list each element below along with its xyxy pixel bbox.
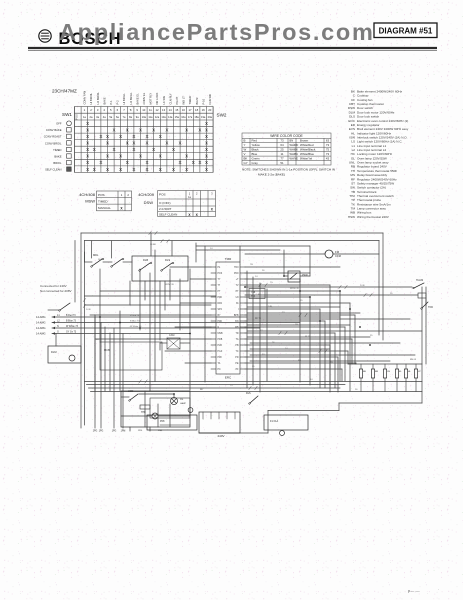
svg-text:CONV BAKE: CONV BAKE [46, 128, 62, 132]
svg-text:X: X [172, 167, 175, 172]
svg-text:75: 75 [326, 148, 330, 152]
svg-text:X: X [113, 147, 116, 152]
svg-text:X: X [139, 127, 142, 132]
svg-text:W 73: W 73 [305, 336, 311, 338]
svg-text:MCB: MCB [104, 348, 110, 352]
switch S7 (mid-left) [60, 303, 70, 310]
legend: component abbreviation list [348, 90, 409, 219]
svg-text:X: X [106, 154, 109, 159]
switch S8 (lamp switch) [130, 394, 138, 400]
logo Bosch emblem [39, 30, 51, 42]
svg-text:MSB: MSB [218, 333, 223, 335]
svg-text:TY: TY [218, 279, 221, 281]
svg-text:P08: P08 [218, 357, 223, 359]
svg-text:OFF: OFF [56, 122, 62, 126]
svg-text:16a: 16a [181, 115, 186, 119]
lamp circuit box [121, 391, 190, 427]
svg-text:BAKE: BAKE [102, 97, 106, 104]
inner box lamp module [150, 398, 190, 418]
svg-text:14 B: 14 B [360, 285, 365, 287]
svg-text:Connected for 240V: Connected for 240V [40, 284, 67, 288]
svg-text:1PG: 1PG [138, 430, 143, 432]
svg-text:BAKE: BAKE [54, 154, 61, 158]
svg-text:MOT RLY: MOT RLY [149, 93, 153, 105]
svg-text:PD: PD [235, 357, 239, 359]
svg-text:CONV ROAST: CONV ROAST [44, 135, 62, 139]
svg-text:77: 77 [280, 157, 284, 161]
svg-text:13: 13 [162, 108, 166, 112]
connector TB8/TB9 box [249, 289, 265, 299]
wire: cam feeds [160, 342, 167, 344]
svg-text:SELF CLEAN: SELF CLEAN [45, 167, 61, 171]
svg-text:White/Red: White/Red [300, 143, 314, 147]
wire number labels [86, 244, 417, 391]
svg-text:P0D: P0D [218, 297, 223, 299]
svg-text:X: X [139, 154, 142, 159]
svg-text:G: G [57, 331, 59, 334]
resistor EL2 [372, 364, 374, 369]
svg-text:LAMP: LAMP [180, 402, 186, 405]
svg-text:LK SW: LK SW [162, 96, 166, 105]
svg-text:FM: FM [335, 250, 340, 254]
svg-text:HI BROIL: HI BROIL [89, 92, 93, 104]
svg-text:BR: BR [375, 371, 378, 373]
svg-text:X: X [119, 134, 122, 139]
svg-text:4CH/408: 4CH/408 [79, 192, 96, 197]
diagram number box [374, 23, 437, 38]
svg-text:P-2: P-2 [116, 100, 120, 105]
svg-text:SELF CLEAN: SELF CLEAN [159, 213, 177, 217]
resistor EL5 [405, 364, 407, 369]
svg-text:HI-LIM: HI-LIM [416, 279, 423, 282]
junction dots [99, 275, 371, 395]
svg-text:SW2: SW2 [217, 113, 227, 118]
svg-text:X: X [86, 147, 89, 152]
motor FM (cooling fan) [325, 250, 333, 258]
svg-text:X: X [205, 134, 208, 139]
svg-text:BAKE EL: BAKE EL [135, 93, 139, 105]
svg-text:2.0-500T: 2.0-500T [159, 207, 171, 211]
lamp socket circle [188, 408, 193, 413]
svg-text:WH/BK: WH/BK [290, 148, 299, 152]
wire: neutral bus band [85, 381, 423, 383]
svg-text:DR LOCK: DR LOCK [155, 92, 159, 104]
svg-text:X: X [198, 160, 201, 165]
cam switch CAM [167, 338, 180, 349]
lamp OL2 [152, 413, 158, 419]
svg-text:DLM: DLM [51, 350, 56, 354]
wires: lamp cluster verticals [144, 391, 146, 427]
svg-text:14a: 14a [168, 115, 173, 119]
svg-text:BK 25: BK 25 [255, 318, 262, 320]
svg-text:X: X [86, 134, 89, 139]
svg-text:LO BROIL: LO BROIL [96, 92, 100, 105]
svg-text:X: X [86, 160, 89, 165]
svg-text:26 BK: 26 BK [150, 244, 156, 246]
switch S6 (right lower) [422, 302, 428, 308]
svg-text:25: 25 [280, 148, 284, 152]
svg-text:X: X [119, 167, 122, 172]
svg-text:PILOT: PILOT [175, 96, 179, 104]
svg-text:PLB: PLB [218, 345, 223, 347]
svg-text:X: X [86, 167, 89, 172]
svg-text:O (OFF): O (OFF) [159, 201, 171, 205]
svg-text:MSW: MSW [85, 199, 95, 204]
svg-text:ERC: ERC [225, 376, 232, 380]
svg-text:14 B: 14 B [86, 309, 91, 311]
svg-text:CONV BROIL: CONV BROIL [45, 141, 62, 145]
lamp OL1 [171, 398, 178, 405]
svg-text:TA: TA [236, 338, 239, 341]
svg-text:10a: 10a [142, 115, 147, 119]
svg-text:X: X [93, 147, 96, 152]
svg-text:TIMED: TIMED [98, 200, 108, 204]
svg-text:11a: 11a [148, 115, 153, 119]
svg-text:Red: Red [252, 139, 258, 143]
svg-text:1PG: 1PG [99, 431, 104, 433]
svg-text:43: 43 [326, 157, 330, 161]
svg-text:CE: CE [387, 371, 391, 373]
svg-text:X: X [205, 160, 208, 165]
wires: mid mesh horizontals [247, 306, 340, 308]
svg-text:POS: POS [159, 193, 166, 197]
svg-text:14: 14 [169, 108, 173, 112]
wires: ERC right fan-out [196, 245, 310, 247]
svg-text:SW1: SW1 [62, 112, 72, 117]
svg-text:W: W [244, 148, 247, 152]
svg-text:WH/YE: WH/YE [290, 157, 299, 161]
svg-text:1PG: 1PG [112, 431, 117, 433]
svg-text:19a: 19a [201, 115, 206, 119]
svg-text:X: X [152, 127, 155, 132]
svg-text:BN 63: BN 63 [410, 359, 417, 361]
svg-text:PB: PB [235, 345, 239, 347]
svg-text:X: X [93, 167, 96, 172]
svg-text:Black: Black [252, 148, 260, 152]
svg-text:B: B [244, 139, 246, 143]
svg-text:p— ––: p— –– [408, 588, 421, 593]
component TOD (small box right) [418, 293, 426, 298]
svg-text:X: X [126, 127, 129, 132]
svg-text:TV: TV [236, 285, 239, 287]
svg-text:PE: PE [235, 363, 239, 365]
svg-text:23CH/47MZ: 23CH/47MZ [52, 89, 77, 94]
svg-text:11: 11 [149, 108, 152, 112]
svg-text:X: X [146, 134, 149, 139]
svg-text:14 AWG: 14 AWG [36, 332, 46, 336]
wire: right border with step [421, 287, 423, 403]
svg-text:X: X [132, 141, 135, 146]
row labels [44, 122, 62, 172]
transformer T1 (left box) [48, 346, 81, 363]
svg-text:15a: 15a [175, 115, 180, 119]
svg-text:DLB: DLB [143, 258, 148, 262]
svg-text:14B: 14B [268, 306, 272, 308]
table: wire color code [242, 133, 331, 165]
svg-text:SP2: SP2 [218, 309, 223, 311]
svg-text:X: X [99, 134, 102, 139]
svg-text:Not connected for 208V: Not connected for 208V [40, 289, 72, 293]
svg-text:LSW: LSW [128, 390, 134, 393]
svg-text:X: X [159, 134, 162, 139]
svg-text:X: X [86, 154, 89, 159]
svg-text:X: X [205, 147, 208, 152]
svg-text:DLB: DLB [98, 259, 103, 261]
svg-text:PD0: PD0 [234, 273, 239, 275]
svg-text:Wiring thermostat 240V: Wiring thermostat 240V [357, 215, 390, 219]
svg-text:Yellow: Yellow [252, 143, 261, 147]
svg-text:51: 51 [280, 161, 284, 165]
svg-text:ZSW: ZSW [302, 274, 308, 277]
wire: left-half long runs [85, 295, 217, 297]
svg-text:AppliancePartsPros.com: AppliancePartsPros.com [59, 19, 375, 45]
svg-text:TC: TC [235, 351, 238, 353]
wire: z-box feeds [284, 275, 288, 277]
terminal block TB [147, 415, 197, 430]
svg-text:MDL: MDL [93, 253, 99, 257]
relay box K1 (top-left) [132, 256, 188, 281]
svg-text:.: . [438, 586, 439, 591]
svg-text:DLS: DLS [246, 392, 251, 395]
svg-text:X: X [113, 127, 116, 132]
svg-text:CF/M: CF/M [335, 255, 341, 258]
svg-text:64: 64 [280, 143, 284, 147]
svg-text:X: X [132, 167, 135, 172]
switch S1 (inside K1) [140, 263, 150, 270]
wire gauge ticks [83, 231, 372, 389]
svg-text:F1 F1A: F1 F1A [270, 420, 279, 423]
svg-text:PC: PC [218, 369, 222, 371]
svg-text:TA: TA [218, 362, 221, 365]
svg-text:X: X [159, 167, 162, 172]
svg-text:X: X [86, 141, 89, 146]
svg-text:X: X [205, 141, 208, 146]
svg-text:LO BR EL: LO BR EL [129, 92, 133, 105]
svg-text:B Red 73: B Red 73 [130, 315, 140, 317]
wire: fan feed [245, 253, 325, 255]
header rule [28, 47, 437, 49]
X marks in matrix [86, 121, 208, 172]
svg-text:X: X [179, 141, 182, 146]
svg-text:X: X [146, 160, 149, 165]
svg-text:BK: BK [244, 157, 248, 161]
svg-text:19: 19 [202, 108, 206, 112]
svg-text:73: 73 [326, 152, 330, 156]
svg-text:POS: POS [75, 114, 79, 120]
svg-text:11: 11 [280, 152, 283, 156]
svg-text:V: V [244, 152, 246, 156]
wires: vertical drops [299, 279, 301, 382]
svg-text:POS: POS [98, 193, 105, 197]
svg-text:14 AWG: 14 AWG [36, 326, 46, 330]
svg-text:BUZZ: BUZZ [195, 97, 199, 104]
wires: left vertical drops [99, 269, 101, 342]
svg-text:X: X [185, 127, 188, 132]
svg-text:X: X [126, 160, 129, 165]
svg-text:1PG: 1PG [93, 431, 98, 433]
svg-text:WH/RD: WH/RD [290, 143, 299, 147]
schematic main group [36, 231, 433, 438]
resistor R bottom [140, 405, 150, 409]
svg-text:14 AWG: 14 AWG [36, 315, 46, 319]
svg-text:Brown: Brown [300, 139, 309, 143]
terminal block 240V [199, 412, 240, 433]
wires: ERC left connections [170, 266, 211, 268]
svg-text:X: X [185, 154, 188, 159]
svg-text:X: X [132, 134, 135, 139]
svg-text:X: X [205, 167, 208, 172]
svg-text:TIMED: TIMED [53, 148, 61, 152]
svg-text:CONV EL: CONV EL [142, 92, 146, 104]
svg-text:4CH/209: 4CH/209 [138, 192, 155, 197]
svg-text:BN: BN [290, 139, 294, 143]
svg-text:15: 15 [175, 108, 179, 112]
svg-text:W White 73: W White 73 [66, 325, 79, 328]
door lock module box [264, 415, 308, 430]
svg-text:18a: 18a [194, 115, 199, 119]
svg-text:MAKE 2-2a (BAKE): MAKE 2-2a (BAKE) [258, 173, 285, 177]
svg-text:X: X [185, 167, 188, 172]
svg-text:X: X [165, 127, 168, 132]
svg-text:BROIL: BROIL [53, 161, 62, 165]
svg-text:N: N [57, 325, 59, 328]
svg-text:12a: 12a [155, 115, 160, 119]
svg-text:TMR: TMR [225, 257, 232, 261]
svg-text:X: X [205, 154, 208, 159]
svg-text:X: X [86, 127, 89, 132]
svg-text:X: X [146, 141, 149, 146]
module MCB box [100, 342, 162, 370]
svg-text:White/Black: White/Black [300, 148, 316, 152]
svg-text:17a: 17a [188, 115, 193, 119]
svg-text:WDW 26: WDW 26 [290, 288, 300, 290]
switch S9 [250, 396, 258, 403]
svg-text:TD: TD [235, 333, 238, 335]
svg-text:X: X [165, 141, 168, 146]
svg-text:X: X [106, 141, 109, 146]
svg-text:P-1: P-1 [109, 100, 113, 105]
svg-text:13a: 13a [161, 115, 166, 119]
op-amp/control module EOC (central box) [216, 262, 240, 374]
resistor EL1 [360, 364, 362, 369]
switch S2 (inside K1) [162, 263, 172, 270]
svg-text:X: X [106, 134, 109, 139]
svg-text:X: X [179, 160, 182, 165]
svg-text:WDW 26: WDW 26 [165, 284, 175, 286]
resistor EL3 [384, 364, 386, 369]
svg-text:PO3: PO3 [218, 273, 223, 275]
switch S3 [92, 259, 102, 266]
svg-text:20a: 20a [208, 115, 213, 119]
svg-text:HI BR EL: HI BR EL [122, 93, 126, 105]
wire: lamp circuit [121, 396, 129, 398]
svg-text:P-10: P-10 [201, 98, 205, 104]
svg-text:20: 20 [208, 108, 212, 112]
svg-text:DSW: DSW [144, 200, 154, 205]
svg-text:X: X [99, 160, 102, 165]
component Z1 (suppressor box) [288, 271, 300, 282]
svg-text:X: X [126, 141, 129, 146]
switch S5 (right) [414, 283, 424, 288]
svg-text:18: 18 [195, 108, 199, 112]
svg-text:16: 16 [182, 108, 186, 112]
svg-text:BN: BN [298, 360, 301, 362]
svg-text:12: 12 [155, 108, 159, 112]
resistor EL6 [415, 364, 417, 369]
svg-text:White/Yel: White/Yel [300, 157, 312, 161]
svg-text:Gray: Gray [252, 161, 259, 165]
svg-text:X: X [106, 167, 109, 172]
svg-text:CLN RLY: CLN RLY [168, 93, 172, 104]
svg-text:73: 73 [280, 139, 284, 143]
svg-text:DPA: DPA [218, 302, 223, 305]
resistor EL4 [396, 364, 398, 369]
svg-text:73: 73 [326, 143, 330, 147]
svg-text:TB8: TB8 [251, 292, 256, 294]
svg-text:TOD: TOD [428, 306, 433, 309]
svg-text:GY: GY [244, 161, 248, 165]
wire: top-left connections [85, 261, 93, 263]
wire: L2 bus frame inner [81, 232, 383, 234]
svg-text:Y: Y [244, 143, 246, 147]
svg-text:FAN SW: FAN SW [208, 94, 212, 105]
svg-text:PDB: PDB [218, 339, 223, 341]
svg-text:MANUAL: MANUAL [98, 206, 111, 210]
svg-text:240V: 240V [217, 434, 224, 438]
svg-text:X: X [159, 154, 162, 159]
svg-text:X: X [192, 160, 195, 165]
svg-text:X: X [205, 127, 208, 132]
svg-text:Green: Green [252, 157, 260, 161]
svg-text:PGF: PGF [218, 351, 223, 353]
svg-text:X: X [146, 167, 149, 172]
svg-text:17: 17 [188, 108, 192, 112]
svg-text:14 AWG: 14 AWG [36, 321, 46, 325]
svg-text:X: X [86, 121, 89, 126]
svg-text:X: X [132, 147, 135, 152]
svg-text:X: X [172, 147, 175, 152]
svg-text:10: 10 [142, 108, 146, 112]
svg-text:63: 63 [326, 139, 330, 143]
svg-text:NOTE: SWITCHES SHOWN IN 1-1a P: NOTE: SWITCHES SHOWN IN 1-1a POSITION (O… [242, 168, 335, 172]
svg-text:DLS: DLS [165, 258, 170, 262]
svg-text:DIAGRAM #51: DIAGRAM #51 [379, 27, 433, 36]
svg-text:X: X [205, 121, 208, 126]
column header labels (rotated) [83, 91, 212, 105]
svg-text:X: X [198, 127, 201, 132]
svg-text:B Blue 73: B Blue 73 [130, 321, 140, 323]
svg-text:WH/BU: WH/BU [290, 152, 299, 156]
svg-text:X: X [152, 147, 155, 152]
svg-text:White/Blue: White/Blue [300, 152, 314, 156]
svg-text:X: X [119, 154, 122, 159]
svg-text:IND LT: IND LT [182, 96, 186, 105]
svg-text:Blue: Blue [252, 152, 258, 156]
svg-text:CONV FAN: CONV FAN [83, 91, 87, 105]
svg-text:TD0: TD0 [234, 267, 239, 269]
svg-text:TIMER: TIMER [188, 96, 192, 104]
svg-text:WIRE COLOR CODE: WIRE COLOR CODE [270, 134, 303, 138]
switch S4 [112, 259, 122, 266]
svg-text:1PM: 1PM [121, 431, 126, 433]
svg-text:P08: P08 [160, 420, 165, 423]
svg-text:HSW: HSW [348, 215, 355, 219]
svg-text:CAM: CAM [169, 334, 174, 337]
